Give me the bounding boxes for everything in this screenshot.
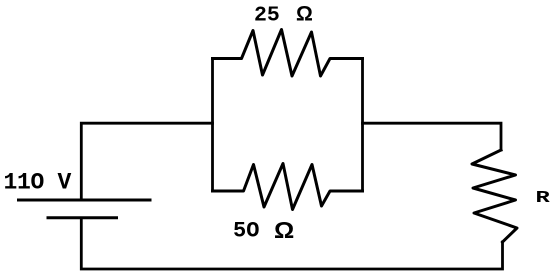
battery V1 negative plate (short) bbox=[48, 216, 117, 219]
battery V1 positive plate (long) bbox=[19, 199, 151, 202]
node B: right junction of parallel branches (vertical bus) bbox=[361, 59, 364, 192]
resistor 50 ohm (bottom branch) bbox=[213, 164, 363, 210]
svg-text:R: R bbox=[536, 189, 551, 208]
wire: node B right to resistor R top lead bbox=[363, 123, 502, 150]
resistor R (right vertical) bbox=[472, 150, 517, 242]
resistor 25 ohm (top branch) bbox=[213, 30, 363, 77]
wire: battery positive terminal up to top-left corner and right to node A bbox=[81, 123, 212, 198]
wire: resistor R bottom, along bottom, up to battery negative terminal bbox=[81, 219, 502, 269]
node A: left junction of parallel branches (vertical bus) bbox=[211, 59, 214, 192]
svg-text:11O V: 11O V bbox=[4, 169, 72, 195]
svg-text:25: 25 bbox=[254, 4, 280, 28]
svg-text:Ω: Ω bbox=[296, 3, 313, 26]
svg-text:Ω: Ω bbox=[274, 218, 294, 244]
svg-text:5O: 5O bbox=[233, 219, 259, 244]
